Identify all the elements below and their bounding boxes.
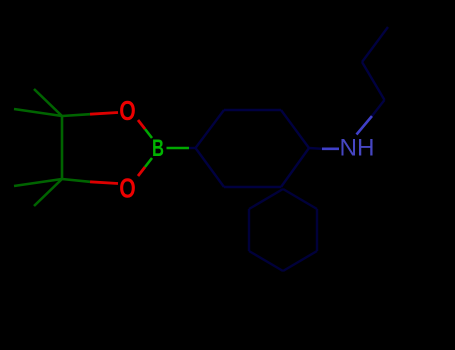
methyl stub C4 left: [14, 109, 62, 116]
bond O1-B (red half): [138, 120, 145, 129]
bond B-ring (green half): [167, 147, 190, 150]
bond O2-C5 (red half): [90, 182, 118, 184]
bond ring-N (blue half): [322, 148, 339, 151]
svg-text:NH: NH: [340, 135, 375, 162]
bond O2-C5 (green half): [62, 179, 90, 182]
bond B-ring (navy half): [189, 147, 196, 149]
bond O2-B (red half): [138, 167, 145, 176]
svg-text:O: O: [119, 173, 136, 204]
benzene ring outline: [196, 110, 310, 187]
lower ring outline: [249, 189, 317, 271]
bond O2-B (green half): [145, 158, 152, 167]
bond N-CH (navy half): [372, 100, 385, 116]
svg-text:B: B: [152, 135, 164, 162]
methyl stub C4 up-left: [34, 89, 62, 116]
bond C4-C5: [61, 116, 64, 179]
bond O1-C4 (green half): [62, 114, 90, 116]
bond CH2-CH3: [362, 27, 388, 62]
bond O1-B (green half): [145, 129, 152, 138]
bond CH-CH2: [362, 62, 385, 100]
methyl stub C5 down-left: [34, 179, 62, 206]
methyl stub C5 left: [14, 179, 62, 186]
svg-text:O: O: [119, 95, 136, 126]
bond N-CH (blue half): [357, 116, 373, 135]
bond O1-C4 (red half): [90, 113, 118, 115]
bond ring-N (navy half): [309, 147, 322, 150]
